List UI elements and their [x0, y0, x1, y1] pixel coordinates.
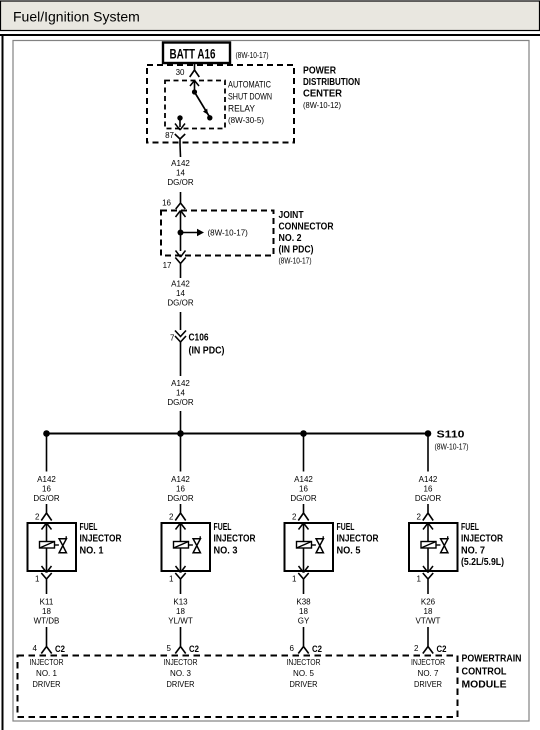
- svg-text:POWERTRAIN: POWERTRAIN: [462, 653, 522, 665]
- svg-text:CONTROL: CONTROL: [462, 666, 507, 678]
- svg-text:2: 2: [169, 513, 174, 522]
- svg-text:6: 6: [290, 644, 295, 653]
- svg-text:C2: C2: [55, 644, 65, 655]
- svg-text:DG/OR: DG/OR: [290, 494, 316, 503]
- svg-text:(8W-10-17): (8W-10-17): [236, 51, 269, 60]
- svg-text:C2: C2: [437, 644, 447, 655]
- svg-text:18: 18: [176, 607, 185, 616]
- svg-text:CONNECTOR: CONNECTOR: [279, 221, 334, 233]
- svg-text:FUEL: FUEL: [214, 521, 232, 533]
- svg-text:POWER: POWER: [303, 65, 336, 77]
- svg-text:87: 87: [165, 131, 174, 140]
- svg-text:DRIVER: DRIVER: [33, 680, 61, 689]
- svg-text:2: 2: [417, 513, 422, 522]
- svg-text:(5.2L/5.9L): (5.2L/5.9L): [461, 556, 504, 568]
- svg-text:AUTOMATIC: AUTOMATIC: [228, 80, 271, 90]
- svg-text:30: 30: [176, 68, 185, 77]
- svg-text:A142: A142: [419, 475, 438, 484]
- svg-text:RELAY: RELAY: [228, 104, 255, 114]
- svg-text:NO. 7: NO. 7: [461, 544, 485, 556]
- svg-text:(8W-10-12): (8W-10-12): [303, 101, 341, 110]
- svg-text:NO. 1: NO. 1: [80, 544, 104, 556]
- svg-text:16: 16: [176, 485, 185, 494]
- svg-text:Fuel/Ignition System: Fuel/Ignition System: [13, 9, 140, 25]
- svg-text:2: 2: [292, 513, 297, 522]
- svg-text:NO. 1: NO. 1: [36, 669, 57, 678]
- svg-text:FUEL: FUEL: [80, 521, 98, 533]
- svg-text:18: 18: [42, 607, 51, 616]
- svg-text:INJECTOR: INJECTOR: [80, 533, 122, 545]
- svg-text:14: 14: [176, 169, 185, 178]
- svg-text:14: 14: [176, 289, 185, 298]
- svg-text:INJECTOR: INJECTOR: [30, 658, 64, 667]
- svg-text:A142: A142: [171, 475, 190, 484]
- svg-text:16: 16: [424, 485, 433, 494]
- svg-text:1: 1: [35, 575, 40, 584]
- svg-text:YL/WT: YL/WT: [168, 617, 193, 626]
- svg-text:NO. 3: NO. 3: [170, 669, 191, 678]
- svg-text:S110: S110: [437, 429, 465, 441]
- svg-text:DISTRIBUTION: DISTRIBUTION: [303, 76, 360, 88]
- svg-text:INJECTOR: INJECTOR: [461, 533, 503, 545]
- svg-text:FUEL: FUEL: [461, 521, 479, 533]
- svg-text:INJECTOR: INJECTOR: [164, 658, 198, 667]
- svg-text:2: 2: [414, 644, 419, 653]
- svg-text:1: 1: [292, 575, 297, 584]
- svg-text:DG/OR: DG/OR: [167, 299, 193, 308]
- svg-text:(IN PDC): (IN PDC): [189, 345, 225, 357]
- svg-text:1: 1: [169, 575, 174, 584]
- svg-text:(8W-10-17): (8W-10-17): [279, 257, 312, 266]
- svg-text:1: 1: [417, 575, 422, 584]
- svg-text:16: 16: [42, 485, 51, 494]
- svg-text:A142: A142: [294, 475, 313, 484]
- svg-text:A142: A142: [171, 280, 190, 289]
- svg-text:18: 18: [424, 607, 433, 616]
- svg-text:K26: K26: [421, 598, 436, 607]
- svg-text:C2: C2: [312, 644, 322, 655]
- svg-text:MODULE: MODULE: [462, 679, 507, 691]
- svg-text:DRIVER: DRIVER: [290, 680, 318, 689]
- svg-text:2: 2: [35, 513, 40, 522]
- svg-text:14: 14: [176, 389, 185, 398]
- svg-text:INJECTOR: INJECTOR: [214, 533, 256, 545]
- svg-text:DG/OR: DG/OR: [167, 494, 193, 503]
- svg-text:NO. 5: NO. 5: [337, 544, 361, 556]
- svg-text:A142: A142: [171, 379, 190, 388]
- svg-text:4: 4: [33, 644, 38, 653]
- svg-text:JOINT: JOINT: [279, 209, 304, 221]
- svg-text:CENTER: CENTER: [303, 88, 342, 100]
- svg-text:DRIVER: DRIVER: [167, 680, 195, 689]
- svg-text:7: 7: [170, 334, 175, 343]
- svg-text:(8W-30-5): (8W-30-5): [228, 116, 264, 125]
- svg-text:16: 16: [162, 199, 171, 208]
- svg-text:SHUT DOWN: SHUT DOWN: [228, 92, 272, 102]
- svg-text:K11: K11: [40, 598, 54, 607]
- svg-text:K38: K38: [296, 598, 311, 607]
- svg-text:(IN PDC): (IN PDC): [279, 244, 314, 256]
- svg-text:GY: GY: [298, 617, 310, 626]
- svg-text:C106: C106: [189, 332, 209, 344]
- svg-text:NO. 3: NO. 3: [214, 544, 238, 556]
- svg-text:A142: A142: [171, 159, 190, 168]
- svg-text:18: 18: [299, 607, 308, 616]
- svg-text:INJECTOR: INJECTOR: [287, 658, 321, 667]
- svg-text:DG/OR: DG/OR: [167, 178, 193, 187]
- svg-text:INJECTOR: INJECTOR: [411, 658, 445, 667]
- svg-text:DG/OR: DG/OR: [167, 398, 193, 407]
- svg-text:FUEL: FUEL: [337, 521, 355, 533]
- svg-text:INJECTOR: INJECTOR: [337, 533, 379, 545]
- svg-text:A142: A142: [37, 475, 56, 484]
- svg-text:VT/WT: VT/WT: [416, 617, 441, 626]
- svg-text:NO. 5: NO. 5: [293, 669, 314, 678]
- svg-text:(8W-10-17): (8W-10-17): [208, 229, 249, 238]
- svg-text:NO. 2: NO. 2: [279, 232, 302, 244]
- svg-text:(8W-10-17): (8W-10-17): [435, 443, 469, 452]
- svg-text:K13: K13: [173, 598, 188, 607]
- svg-text:WT/DB: WT/DB: [34, 617, 60, 626]
- svg-text:16: 16: [299, 485, 308, 494]
- svg-text:NO. 7: NO. 7: [418, 669, 439, 678]
- svg-text:C2: C2: [189, 644, 199, 655]
- svg-text:DRIVER: DRIVER: [414, 680, 442, 689]
- svg-text:17: 17: [163, 261, 172, 270]
- svg-text:BATT A16: BATT A16: [170, 46, 216, 62]
- svg-text:DG/OR: DG/OR: [33, 494, 59, 503]
- svg-text:5: 5: [167, 644, 172, 653]
- svg-text:DG/OR: DG/OR: [415, 494, 441, 503]
